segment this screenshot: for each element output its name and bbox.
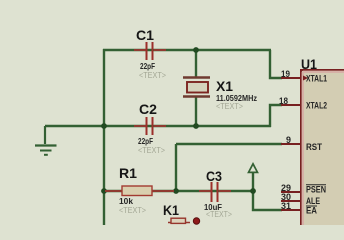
wire R1/C3 net y=191 [103,190,254,192]
svg-text:<TEXT>: <TEXT> [206,210,232,219]
ground [35,126,57,155]
svg-text:18: 18 [279,96,288,107]
svg-text:RST: RST [306,142,322,153]
wire XTAL1 corner to pin 19 [270,50,282,78]
capacitor C1 [134,27,166,80]
pin 9 stub [281,135,300,146]
pin name ALE [306,196,320,207]
power terminal VCC arrow [249,164,258,191]
pushbutton K1 [163,202,200,224]
capacitor C2 [134,101,166,155]
pin 31 stub [281,201,300,212]
svg-text:10k: 10k [119,196,133,206]
svg-text:R1: R1 [119,165,137,181]
svg-text:C3: C3 [206,168,222,184]
svg-text:<TEXT>: <TEXT> [216,102,243,111]
pin 18 stub [279,96,300,107]
svg-text:K1: K1 [163,202,179,218]
svg-text:U1: U1 [301,56,317,72]
pin name RST [306,142,322,153]
node junction X1-C2 wire [193,123,199,129]
pin name XTAL1 [306,74,328,85]
svg-text:<TEXT>: <TEXT> [119,206,146,215]
svg-text:PSEN: PSEN [306,185,326,196]
svg-text:22pF: 22pF [140,61,155,71]
svg-text:C1: C1 [136,27,154,43]
crystal X1 [183,78,257,112]
node junction rail-ground wire [101,123,107,129]
node junction C1-X1 [193,47,199,53]
svg-text:<TEXT>: <TEXT> [139,71,166,80]
node junction RST-R1C3 wire [173,188,179,194]
pin 29 stub [281,183,300,194]
pin 19 stub [281,69,300,80]
wire ground/C2 net y=126 [45,125,271,127]
capacitor C3 [199,168,232,219]
wire RST vertical x=176 [176,144,282,192]
svg-text:EA: EA [306,206,317,217]
node junction rail-R1 wire [101,188,107,194]
pin name XTAL2 [306,101,327,112]
svg-text:<TEXT>: <TEXT> [138,146,165,155]
svg-text:31: 31 [281,201,292,212]
svg-text:C2: C2 [139,101,157,117]
svg-text:X1: X1 [216,78,233,94]
wire XTAL1 net horizontal y=50 [103,49,271,51]
resistor R1 [105,165,174,215]
op-amp U1 microcontroller body [301,56,344,228]
pin XTAL1 clock arrow [303,76,308,81]
pin 30 stub [281,192,300,203]
wire left vertical rail x=103 [103,49,105,225]
wire crystal top lead [195,50,197,78]
wire XTAL2 corner to pin 18 [270,105,282,127]
svg-text:XTAL1: XTAL1 [306,74,328,85]
svg-text:9: 9 [286,135,291,146]
wire crystal bottom lead [195,96,197,127]
wire EA jog to pin 31 [253,190,282,210]
svg-text:22pF: 22pF [138,136,153,146]
svg-text:XTAL2: XTAL2 [306,101,327,112]
pin name PSEN with overline [306,185,326,196]
svg-text:19: 19 [281,69,290,80]
pin name EA with overline [306,206,317,217]
node junction VCC-EA [250,188,256,194]
